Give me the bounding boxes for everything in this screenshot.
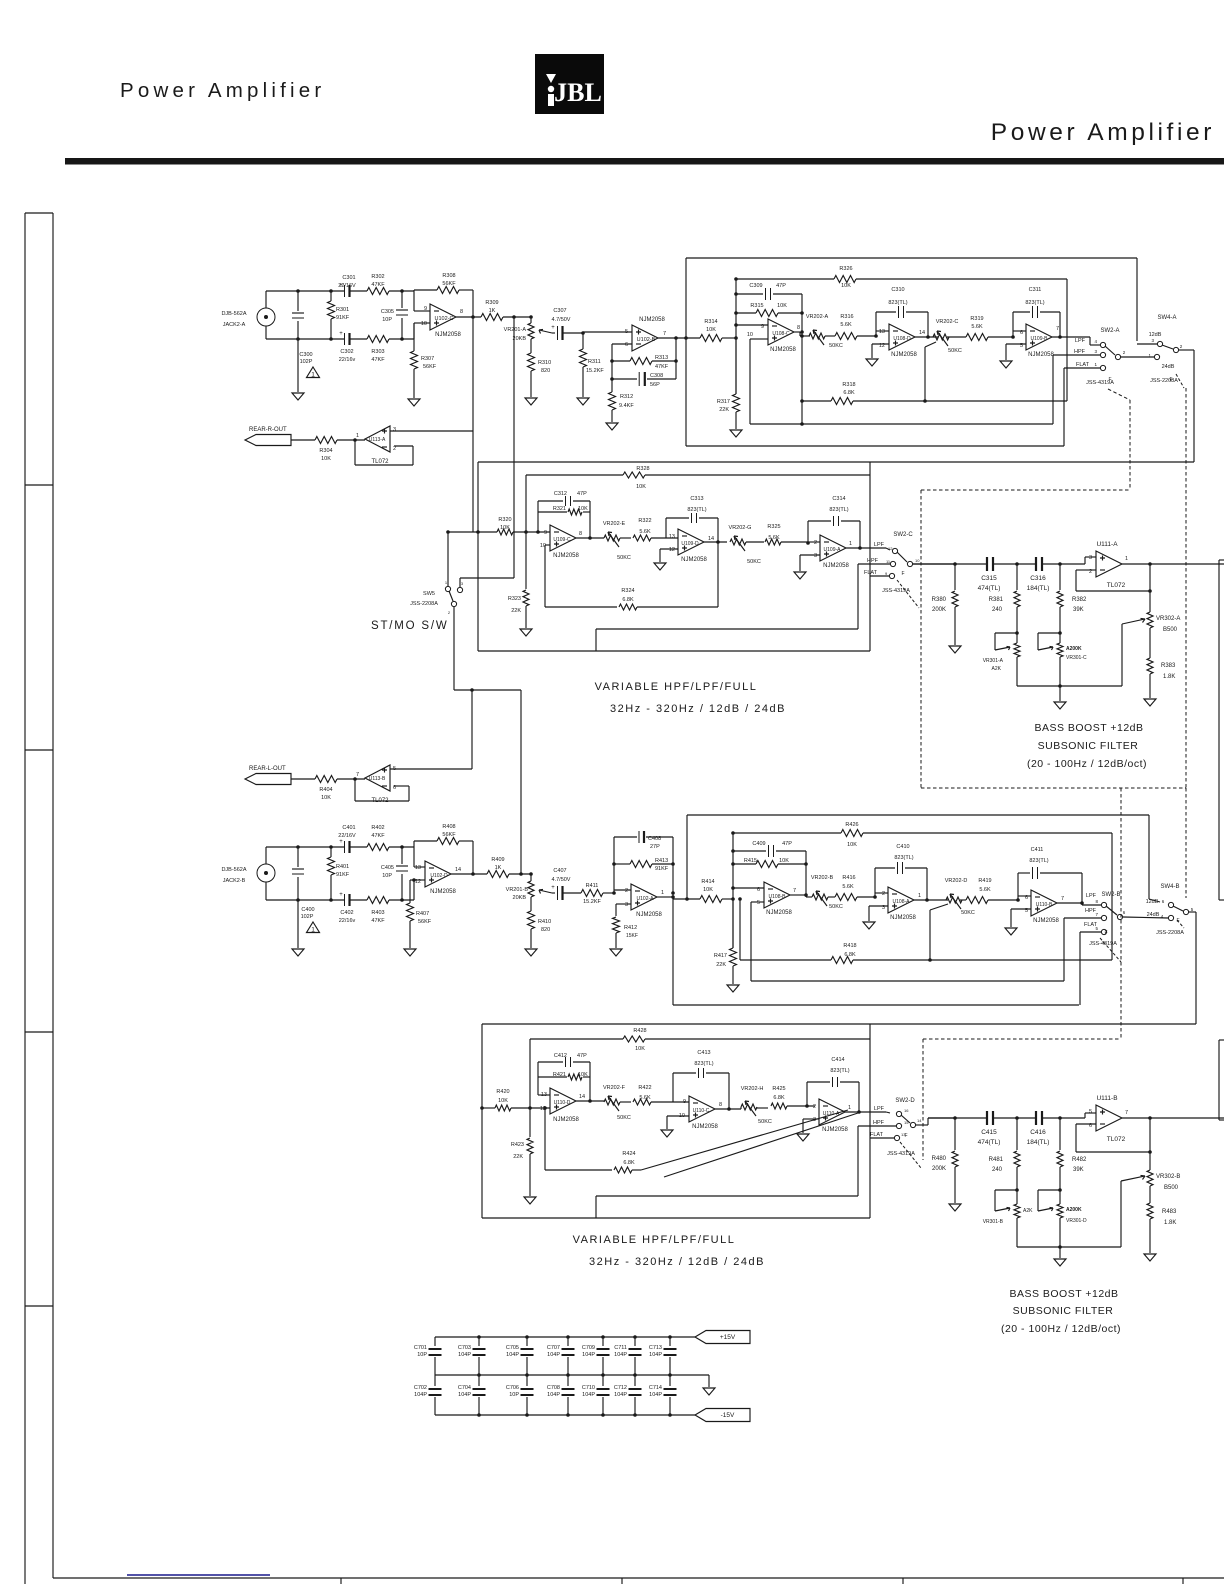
svg-text:10P: 10P [382, 317, 392, 323]
svg-text:VR302-B: VR302-B [1156, 1174, 1180, 1180]
svg-text:9: 9 [683, 1099, 686, 1105]
svg-text:R314: R314 [704, 319, 717, 325]
jack JACK2-B [257, 847, 275, 900]
svg-text:Power Amplifier: Power Amplifier [991, 119, 1215, 146]
op-amp U102-B [625, 317, 666, 351]
svg-text:50KC: 50KC [829, 904, 843, 910]
svg-text:2: 2 [882, 891, 885, 897]
wire C311 right leg [1059, 312, 1061, 337]
svg-text:240: 240 [992, 1167, 1003, 1173]
wire loop2-3 right leg [859, 521, 861, 548]
label variable filter B [573, 1234, 765, 1268]
svg-text:C704: C704 [458, 1385, 471, 1391]
resistor R328 [526, 466, 870, 532]
ground U110-C +in [661, 1130, 673, 1137]
ground under C416 leg B [1054, 1259, 1066, 1266]
svg-text:U108-D: U108-D [893, 336, 911, 342]
resistor R321 [538, 506, 590, 515]
svg-text:10K: 10K [321, 456, 331, 462]
ground U110-A +in [797, 1134, 809, 1141]
wire U102-A -in [614, 889, 631, 891]
svg-text:R380: R380 [932, 597, 947, 603]
svg-text:VR202-D: VR202-D [945, 878, 968, 884]
wire B stage2 -in [873, 868, 888, 899]
svg-text:C707: C707 [547, 1345, 560, 1351]
svg-text:1.8K: 1.8K [1164, 1220, 1176, 1226]
svg-text:NJM2058: NJM2058 [692, 1124, 718, 1130]
capacitor C409 [733, 841, 806, 857]
svg-text:200K: 200K [932, 607, 946, 613]
svg-text:5.6K: 5.6K [768, 535, 780, 541]
svg-text:C307: C307 [553, 308, 566, 314]
svg-text:C416: C416 [1030, 1129, 1046, 1136]
svg-text:C711: C711 [614, 1345, 627, 1351]
wire U108-A out [914, 898, 948, 902]
resistor R423 [511, 1108, 533, 1196]
svg-text:47KF: 47KF [371, 833, 385, 839]
svg-text:VR301-C: VR301-C [1066, 655, 1087, 661]
switch SW5 [410, 580, 464, 615]
wire HPF return B [751, 980, 1064, 982]
svg-text:HPF: HPF [1085, 908, 1097, 914]
svg-text:5.6K: 5.6K [971, 324, 983, 330]
box filter B bottom [673, 1004, 1079, 1006]
wire right partial lower [1219, 1040, 1224, 1120]
svg-text:FLAT: FLAT [1084, 922, 1098, 928]
wire R426 right leg [1111, 833, 1113, 960]
svg-text:104P: 104P [547, 1352, 560, 1358]
resistor R318 [800, 382, 1067, 405]
svg-text:R323: R323 [508, 596, 521, 602]
svg-text:R303: R303 [371, 349, 384, 355]
wire U108-D +in [872, 344, 889, 358]
svg-text:102P: 102P [300, 359, 313, 365]
svg-text:20KB: 20KB [513, 895, 527, 901]
wire R326 right leg [1066, 279, 1068, 401]
svg-text:R404: R404 [319, 787, 332, 793]
svg-text:ST/MO S/W: ST/MO S/W [371, 620, 449, 632]
svg-text:5: 5 [757, 900, 760, 906]
resistor R315 [736, 303, 802, 317]
svg-text:C701: C701 [414, 1345, 427, 1351]
resistor R324 line [545, 545, 718, 610]
wire C310 right leg [927, 312, 929, 337]
capacitor C312 [538, 491, 590, 506]
wire U109-D +in [660, 549, 678, 562]
svg-text:22/16V: 22/16V [338, 833, 356, 839]
pot VR302-B [1147, 1118, 1180, 1203]
wire bass A bottom [1017, 619, 1145, 688]
wire bottom rail A [266, 337, 414, 341]
svg-text:6.8K: 6.8K [844, 952, 856, 958]
svg-text:U102-B: U102-B [637, 337, 656, 343]
svg-text:SW2-A: SW2-A [1100, 328, 1119, 334]
svg-text:R302: R302 [371, 274, 384, 280]
svg-text:10: 10 [421, 321, 427, 327]
wire mid rail [435, 1373, 709, 1377]
svg-text:R381: R381 [989, 597, 1004, 603]
frame left column [25, 213, 53, 1584]
op-amp U102-D [415, 861, 461, 895]
wire U109-D out [704, 541, 727, 543]
svg-text:12: 12 [669, 547, 675, 553]
wire top rail B [266, 845, 414, 849]
wire HPF return A [750, 355, 1053, 426]
svg-text:56P: 56P [650, 382, 660, 388]
wire SW2A common to SW4A [1121, 356, 1154, 358]
capacitor C414 [807, 1057, 859, 1087]
wire U110-D out [576, 1099, 604, 1103]
svg-text:NJM2058: NJM2058 [891, 352, 917, 358]
svg-text:R401: R401 [336, 864, 349, 870]
svg-text:15: 15 [904, 1120, 909, 1125]
switch SW4-B [1146, 884, 1194, 936]
svg-text:R423: R423 [511, 1142, 524, 1148]
svg-text:2: 2 [393, 446, 396, 452]
resistor R421 [538, 1072, 590, 1080]
svg-text:3: 3 [393, 427, 396, 433]
svg-text:U102-A: U102-A [637, 896, 655, 902]
capacitor C308 [612, 372, 676, 388]
capacitor C416 [1027, 1111, 1050, 1146]
svg-text:R318: R318 [842, 382, 855, 388]
svg-text:SW5: SW5 [423, 591, 435, 597]
svg-text:R304: R304 [319, 448, 332, 454]
resistor R312 [609, 392, 635, 422]
svg-text:R322: R322 [638, 518, 651, 524]
resistor R380 [932, 564, 958, 645]
svg-text:LPF: LPF [874, 542, 885, 548]
svg-text:1: 1 [661, 890, 664, 896]
svg-text:474(TL): 474(TL) [978, 585, 1001, 592]
svg-text:5: 5 [625, 329, 628, 335]
wire loop4-1 left leg [538, 1062, 550, 1095]
svg-text:R483: R483 [1162, 1209, 1177, 1215]
svg-text:47KF: 47KF [371, 282, 385, 288]
svg-text:104P: 104P [582, 1392, 595, 1398]
svg-text:+: + [339, 331, 343, 337]
switch SW2-B [1084, 892, 1126, 947]
svg-text:C713: C713 [649, 1345, 662, 1351]
svg-text:C410: C410 [896, 844, 909, 850]
wire B stage3 -in [1016, 873, 1031, 902]
JBL logo [535, 54, 604, 114]
capacitor C412 [538, 1053, 590, 1067]
svg-text:184(TL): 184(TL) [1027, 585, 1050, 592]
svg-text:22/16v: 22/16v [339, 918, 356, 924]
svg-text:1: 1 [311, 372, 315, 379]
dashed box bass B [923, 1039, 1121, 1160]
wire C411 right leg [1081, 873, 1083, 903]
svg-text:JACK2-A: JACK2-A [223, 322, 246, 328]
wire pot C wiper [923, 342, 936, 403]
capacitor C712 [614, 1375, 642, 1415]
svg-text:A2K: A2K [992, 666, 1002, 672]
wire U111-A out [1122, 562, 1224, 566]
svg-text:R307: R307 [421, 356, 434, 362]
svg-text:10P: 10P [509, 1392, 519, 1398]
svg-text:C712: C712 [614, 1385, 627, 1391]
wire loop B1 right leg [804, 851, 808, 897]
svg-text:R308: R308 [442, 273, 455, 279]
svg-text:50KC: 50KC [617, 1115, 631, 1121]
svg-text:8: 8 [797, 325, 800, 331]
svg-text:C302: C302 [340, 349, 353, 355]
wire U110-C out [715, 1107, 741, 1109]
resistor R383 [1147, 658, 1176, 698]
svg-text:VR201-A: VR201-A [504, 327, 527, 333]
connector -15V [695, 1409, 750, 1422]
wire node B1 [731, 833, 735, 948]
wire HPF row4 [596, 1126, 896, 1218]
svg-text:FLAT: FLAT [870, 1132, 884, 1138]
connector +15V [695, 1331, 750, 1344]
svg-text:BASS BOOST +12dB: BASS BOOST +12dB [1009, 1288, 1118, 1300]
resistor R425 [756, 1086, 815, 1109]
wire SW5 common down [454, 607, 521, 690]
box row4 bottom [482, 1217, 870, 1219]
svg-text:13: 13 [879, 329, 885, 335]
dashed F arrow SW2-A [1108, 377, 1111, 383]
svg-text:R409: R409 [491, 857, 504, 863]
svg-text:JSS-2208A: JSS-2208A [410, 601, 438, 607]
svg-text:R410: R410 [538, 919, 551, 925]
wire bass B main [928, 1113, 1096, 1120]
svg-text:C313: C313 [690, 496, 703, 502]
capacitor C309 [736, 283, 802, 300]
pot VR301-C [1038, 633, 1087, 701]
svg-text:+: + [551, 885, 555, 891]
svg-text:U113-A: U113-A [369, 437, 386, 443]
wire row4 input [480, 1106, 550, 1110]
svg-text:14: 14 [579, 1094, 585, 1100]
svg-text:REAR-R-OUT: REAR-R-OUT [249, 427, 287, 433]
wire SW2-D common to bass B [916, 1118, 955, 1125]
svg-text:R425: R425 [772, 1086, 785, 1092]
svg-text:JACK2-B: JACK2-B [223, 878, 246, 884]
svg-text:HPF: HPF [867, 558, 879, 564]
svg-text:823(TL): 823(TL) [894, 855, 913, 861]
svg-text:4.7/50V: 4.7/50V [552, 317, 571, 323]
wire -15V rail [435, 1413, 695, 1417]
svg-text:+: + [339, 892, 343, 898]
wire tap to SW5 [460, 317, 514, 587]
resistor R319 [947, 316, 1013, 341]
resistor R382 [1057, 564, 1087, 635]
svg-text:R419: R419 [978, 878, 991, 884]
svg-text:NJM2058: NJM2058 [430, 889, 456, 895]
box filter A left [685, 258, 687, 446]
wire bass B bottom [1017, 1176, 1145, 1249]
svg-text:SW4-A: SW4-A [1157, 315, 1176, 321]
svg-text:C401: C401 [342, 825, 355, 831]
svg-text:104P: 104P [614, 1352, 627, 1358]
svg-text:Power Amplifier: Power Amplifier [120, 79, 325, 102]
op-amp U108-C [747, 319, 800, 353]
svg-text:R415: R415 [744, 858, 757, 864]
svg-text:823(TL): 823(TL) [1025, 300, 1044, 306]
svg-text:R328: R328 [636, 466, 649, 472]
op-amp U110-A [813, 1099, 851, 1133]
svg-text:5.6K: 5.6K [979, 887, 991, 893]
wire row4 feed [482, 1023, 1196, 1025]
svg-text:39K: 39K [1073, 1167, 1084, 1173]
svg-text:C311: C311 [1029, 287, 1042, 293]
label ST/MO [371, 620, 449, 632]
svg-text:240: 240 [992, 607, 1003, 613]
svg-text:C400: C400 [301, 907, 314, 913]
resistor R407 [407, 880, 432, 948]
op-amp U113-B [356, 765, 396, 804]
dashed F arrow SW2-D [900, 1133, 921, 1168]
svg-text:7: 7 [663, 331, 666, 337]
svg-text:47KF: 47KF [371, 357, 385, 363]
ground under R412 [610, 949, 622, 956]
svg-text:22K: 22K [719, 407, 729, 413]
svg-text:6: 6 [625, 342, 628, 348]
svg-text:15.2KF: 15.2KF [586, 368, 604, 374]
wire row2 input [448, 530, 550, 534]
svg-text:C408: C408 [648, 836, 661, 842]
svg-text:32Hz - 320Hz / 12dB / 24dB: 32Hz - 320Hz / 12dB / 24dB [610, 703, 786, 715]
op-amp U110-C [679, 1096, 722, 1130]
svg-text:104P: 104P [614, 1392, 627, 1398]
svg-text:7: 7 [1056, 326, 1059, 332]
svg-text:6.8K: 6.8K [773, 1095, 785, 1101]
svg-text:C300: C300 [299, 352, 312, 358]
op-amp U109-D [669, 529, 714, 563]
op-amp U108-D [879, 324, 925, 358]
svg-text:16: 16 [904, 1108, 909, 1113]
capacitor C407 [551, 868, 581, 900]
ground U108-D +in [866, 359, 878, 366]
svg-text:13: 13 [541, 1092, 547, 1098]
blue mark [127, 1574, 270, 1576]
wire C408 node [612, 837, 616, 893]
wire loop4-1 right leg [589, 1062, 591, 1101]
svg-text:R413: R413 [655, 858, 668, 864]
wire to U102-C inputs [414, 291, 430, 339]
svg-text:R383: R383 [1161, 663, 1176, 669]
svg-text:184(TL): 184(TL) [1027, 1139, 1050, 1146]
svg-text:R414: R414 [701, 879, 714, 885]
capacitor C402 [339, 892, 356, 924]
wire U110-B +in [1011, 909, 1031, 927]
pot VR202-D [945, 878, 975, 916]
svg-text:R309: R309 [485, 300, 498, 306]
svg-text:R412: R412 [624, 925, 637, 931]
capacitor C301 [338, 275, 356, 297]
svg-text:C709: C709 [582, 1345, 595, 1351]
svg-text:C315: C315 [981, 575, 997, 582]
svg-text:10K: 10K [706, 327, 716, 333]
svg-text:5.6K: 5.6K [842, 884, 854, 890]
ground U109-D +in [654, 563, 666, 570]
svg-text:R426: R426 [845, 822, 858, 828]
wire pot D wiper [930, 904, 948, 960]
svg-text:15.2KF: 15.2KF [583, 899, 601, 905]
svg-text:R420: R420 [496, 1089, 509, 1095]
svg-text:6.8K: 6.8K [843, 390, 855, 396]
svg-text:R326: R326 [839, 266, 852, 272]
svg-text:10K: 10K [636, 484, 646, 490]
wire bass A main [913, 557, 1096, 566]
svg-text:56KF: 56KF [423, 364, 437, 370]
svg-text:VR202-E: VR202-E [603, 521, 626, 527]
svg-text:R312: R312 [620, 394, 633, 400]
svg-text:3: 3 [814, 553, 817, 559]
svg-text:50KC: 50KC [961, 910, 975, 916]
svg-text:39K: 39K [1073, 607, 1084, 613]
wire right partial upper [1219, 560, 1224, 900]
ground under R483 [1144, 1254, 1156, 1261]
jack JACK2-B label [221, 867, 246, 884]
ground under R380 [949, 646, 961, 653]
wire HPF row2 [596, 564, 890, 651]
svg-text:R320: R320 [498, 517, 511, 523]
svg-text:R424: R424 [622, 1151, 635, 1157]
resistor R326 [734, 266, 1067, 289]
wire loop2-1 right leg [589, 501, 591, 538]
svg-text:104P: 104P [547, 1392, 560, 1398]
svg-text:R325: R325 [767, 524, 780, 530]
wire U108-C -in [736, 324, 768, 326]
resistor R420 [495, 1089, 511, 1111]
svg-text:R421: R421 [553, 1072, 566, 1078]
dashed box bass A [921, 490, 1186, 788]
svg-text:F: F [1104, 930, 1107, 936]
svg-text:7: 7 [793, 888, 796, 894]
resistor R414 [700, 879, 733, 903]
op-amp U109-C [540, 525, 582, 559]
capacitor C709 [582, 1337, 610, 1375]
resistor R483 [1147, 1203, 1177, 1253]
svg-text:20KB: 20KB [513, 336, 527, 342]
capacitor C300 [292, 291, 313, 392]
svg-text:NJM2058: NJM2058 [553, 553, 579, 559]
svg-text:U111-A: U111-A [1096, 541, 1118, 548]
pot VR202-E [603, 521, 631, 561]
svg-text:22/16v: 22/16v [339, 357, 356, 363]
svg-text:1: 1 [848, 1105, 851, 1111]
svg-text:SW2-C: SW2-C [893, 532, 913, 538]
wire loop2-2 right leg [716, 518, 720, 607]
svg-text:U108-A: U108-A [893, 899, 911, 905]
svg-text:10K: 10K [779, 858, 789, 864]
svg-text:14: 14 [919, 330, 925, 336]
svg-text:C308: C308 [650, 373, 663, 379]
wire loop4-2 right leg [727, 1073, 731, 1111]
pot VR202-G [729, 525, 761, 565]
svg-text:R408: R408 [442, 824, 455, 830]
wire U109-C out [576, 536, 604, 540]
svg-text:823(TL): 823(TL) [687, 507, 706, 513]
svg-text:22K: 22K [511, 608, 521, 614]
resistor R428 [530, 1028, 870, 1108]
capacitor C711 [614, 1337, 641, 1375]
resistor R426 [731, 822, 1112, 848]
svg-text:823(TL): 823(TL) [830, 1068, 849, 1074]
resistor R401 [328, 847, 350, 900]
svg-text:10K: 10K [498, 1098, 508, 1104]
ground U109-A +in [794, 572, 806, 579]
resistor R415 [733, 858, 806, 868]
svg-text:10K: 10K [500, 525, 510, 531]
svg-text:U102-C: U102-C [435, 316, 454, 322]
svg-text:NJM2058: NJM2058 [636, 912, 662, 918]
svg-text:R417: R417 [714, 953, 727, 959]
resistor R307 [411, 323, 437, 398]
